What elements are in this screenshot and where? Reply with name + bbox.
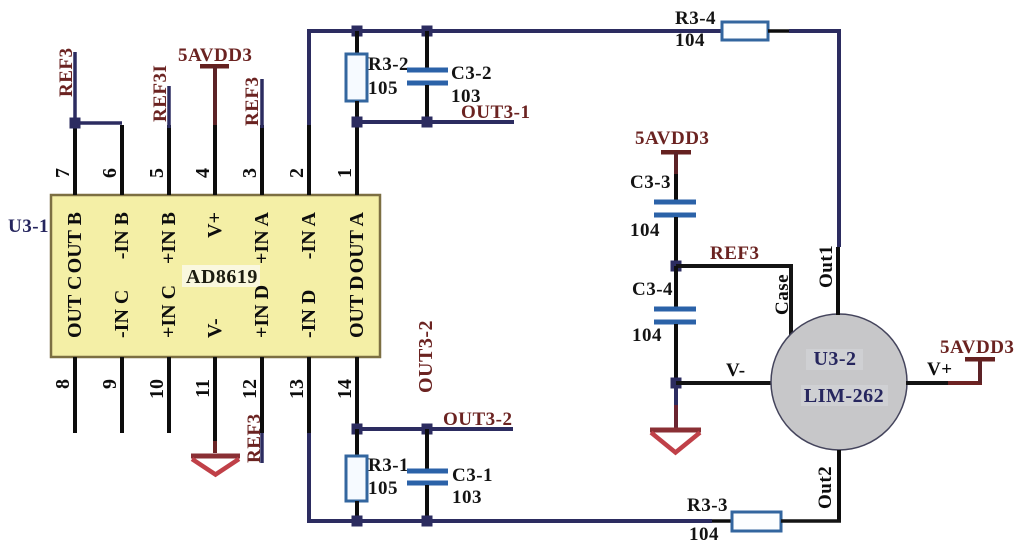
svg-text:105: 105	[368, 478, 398, 499]
ground symbol middle	[650, 428, 701, 433]
svg-text:C3-3: C3-3	[630, 172, 671, 193]
svg-text:12: 12	[239, 379, 261, 399]
pin 5 stub	[167, 125, 171, 195]
pin 7 stub	[73, 125, 77, 195]
resistor R3-2 top lead	[355, 31, 359, 54]
resistor R3-2 bottom lead	[355, 101, 359, 122]
capacitor C3-1 top plate	[407, 469, 448, 474]
capacitor C3-4 top plate	[654, 307, 696, 312]
IC U3-1 body	[51, 195, 380, 357]
pin V+ wire	[906, 381, 948, 385]
svg-text:AD8619: AD8619	[186, 266, 258, 288]
svg-text:V+: V+	[204, 212, 226, 238]
svg-text:V+: V+	[927, 359, 953, 380]
svg-text:103: 103	[452, 487, 482, 508]
capacitor C3-4 bottom plate	[654, 320, 696, 325]
pin 6 stub	[120, 125, 124, 195]
wire rail corner down to Out1	[789, 31, 839, 247]
svg-text:R3-3: R3-3	[687, 495, 728, 516]
pin 2 stub	[307, 122, 311, 195]
wire on pin 12 for REF3	[260, 433, 264, 463]
svg-text:V-: V-	[204, 318, 226, 338]
resistor R3-4 right lead	[768, 29, 791, 33]
svg-text:11: 11	[192, 379, 214, 398]
junction OUT3-2 rail at pin 14	[352, 424, 363, 435]
resistor R3-1 body	[346, 456, 367, 501]
resistor R3-4 body	[722, 22, 768, 40]
wire pin 3 up	[260, 79, 264, 128]
svg-text:OUT3-2: OUT3-2	[415, 320, 437, 393]
svg-text:C3-1: C3-1	[452, 465, 493, 486]
wire OUT3-2 mini rail	[357, 427, 513, 431]
wire V+ to power symbol	[948, 381, 982, 385]
wire REF3 to Case	[676, 266, 791, 336]
svg-text:C3-4: C3-4	[632, 279, 673, 300]
junction bottom rail at C3-1	[422, 516, 433, 527]
capacitor C3-4 top lead	[674, 266, 678, 308]
capacitor C3-1 bottom plate	[407, 481, 448, 486]
junction pin7/pin6	[70, 118, 81, 129]
resistor R3-2 body	[346, 54, 367, 101]
svg-text:-IN A: -IN A	[298, 211, 320, 259]
svg-text:-IN D: -IN D	[298, 290, 320, 338]
svg-text:REF3: REF3	[244, 414, 265, 464]
svg-text:10: 10	[146, 379, 168, 399]
power stem middle	[674, 152, 678, 174]
pin Out2 of U3-2	[837, 450, 841, 521]
svg-text:U3-2: U3-2	[813, 348, 856, 370]
capacitor C3-2 bottom lead	[425, 85, 429, 122]
svg-text:OUT B: OUT B	[64, 212, 86, 273]
svg-text:LIM-262: LIM-262	[804, 385, 884, 407]
power stem right	[978, 359, 982, 383]
svg-text:13: 13	[286, 379, 308, 399]
svg-text:8: 8	[52, 379, 74, 389]
svg-text:6: 6	[99, 168, 121, 178]
wire pin 2 up and top rail	[309, 31, 722, 125]
pin 4 stub	[213, 125, 217, 195]
svg-text:REF3: REF3	[242, 77, 263, 127]
pin 10 stub	[167, 357, 171, 433]
wire lower mini rail OUT3-1	[357, 120, 514, 124]
power bar symbol middle	[661, 150, 691, 155]
svg-text:U3-1: U3-1	[8, 216, 49, 237]
resistor R3-3 body	[732, 512, 781, 531]
svg-text:104: 104	[630, 220, 660, 241]
wire junction to pin 6	[75, 121, 122, 125]
capacitor C3-2 top lead	[425, 31, 429, 69]
junction top rail at R3-2	[352, 26, 363, 37]
svg-text:104: 104	[675, 30, 705, 51]
power stem pin 4	[213, 66, 217, 125]
svg-text:104: 104	[689, 524, 719, 545]
resistor R3-1 bottom lead	[355, 501, 359, 521]
IC U3-1 value AD8619 halo	[182, 265, 260, 287]
svg-text:Out1: Out1	[816, 245, 837, 288]
svg-text:9: 9	[99, 379, 121, 389]
svg-text:R3-2: R3-2	[368, 54, 409, 75]
resistor R3-1 top lead	[355, 429, 359, 456]
junction REF3 node	[671, 261, 682, 272]
capacitor C3-3 bottom plate	[654, 213, 696, 218]
svg-text:+IN B: +IN B	[158, 212, 180, 264]
svg-text:2: 2	[286, 168, 308, 178]
wire pin 5 up	[167, 86, 171, 128]
svg-text:C3-2: C3-2	[451, 63, 492, 84]
power bar symbol right	[965, 357, 995, 362]
svg-text:OUT3-2: OUT3-2	[443, 409, 513, 430]
resistor R3-3 left lead	[712, 519, 732, 523]
power bar symbol pin 4	[200, 64, 229, 69]
svg-text:Case: Case	[772, 274, 793, 315]
pin 14 stub	[355, 357, 359, 429]
svg-text:REF3: REF3	[710, 243, 760, 264]
ground stem middle	[674, 388, 678, 406]
capacitor C3-3 top plate	[654, 200, 696, 205]
capacitor C3-3 bottom lead	[674, 217, 678, 266]
pin 8 stub	[73, 357, 77, 433]
svg-text:104: 104	[632, 325, 662, 346]
junction top rail at C3-2	[422, 26, 433, 37]
U3-2 text halo	[806, 349, 863, 370]
svg-text:-IN B: -IN B	[111, 212, 133, 259]
junction bottom rail at R3-1	[352, 516, 363, 527]
pin 9 stub	[120, 357, 124, 433]
svg-text:3: 3	[239, 168, 261, 178]
svg-text:OUT C: OUT C	[64, 276, 86, 338]
svg-text:+IN D: +IN D	[251, 285, 273, 338]
capacitor C3-4 bottom lead	[674, 324, 678, 383]
svg-text:V-: V-	[726, 360, 746, 381]
junction mini rail at pin 1	[352, 117, 363, 128]
op-amp U3-2 circle body	[771, 314, 907, 450]
ground stem at pin 11	[213, 441, 217, 453]
svg-text:7: 7	[52, 168, 74, 178]
svg-text:-IN C: -IN C	[111, 290, 133, 338]
svg-text:OUT3-1: OUT3-1	[461, 102, 531, 123]
svg-text:+IN A: +IN A	[251, 211, 273, 264]
capacitor C3-2 bottom plate	[407, 81, 448, 86]
capacitor C3-1 top lead	[425, 429, 429, 470]
wire pin 7 up	[73, 52, 77, 124]
ground symbol at pin 11	[191, 454, 240, 459]
pin Out1 of U3-2	[836, 247, 840, 315]
svg-text:+IN C: +IN C	[158, 285, 180, 338]
svg-text:5AVDD3: 5AVDD3	[178, 45, 252, 66]
svg-text:Out2: Out2	[815, 466, 836, 509]
svg-text:OUT A: OUT A	[346, 211, 368, 273]
wire V- to circle	[676, 381, 772, 385]
svg-text:4: 4	[192, 168, 214, 178]
capacitor C3-1 bottom lead	[425, 485, 429, 521]
junction V- node	[671, 378, 682, 389]
svg-text:5AVDD3: 5AVDD3	[940, 337, 1014, 358]
svg-text:5AVDD3: 5AVDD3	[635, 128, 709, 149]
pin 3 stub	[260, 125, 264, 195]
svg-text:R3-4: R3-4	[675, 8, 716, 29]
pin 12 stub	[260, 357, 264, 433]
pin 1 stub	[355, 126, 359, 195]
svg-text:105: 105	[368, 78, 398, 99]
svg-text:1: 1	[334, 168, 356, 178]
junction mini rail at C3-2	[422, 117, 433, 128]
capacitor C3-3 top lead	[674, 174, 678, 201]
wire pin 13 down to bottom rail	[309, 433, 712, 521]
svg-text:R3-1: R3-1	[368, 455, 409, 476]
pin 13 stub	[307, 357, 311, 433]
svg-text:OUT D: OUT D	[346, 276, 368, 338]
capacitor C3-2 top plate	[407, 68, 448, 73]
resistor R3-3 right lead to Out2	[781, 519, 841, 523]
svg-text:5: 5	[146, 168, 168, 178]
svg-text:14: 14	[334, 379, 356, 399]
pin 11 stub	[213, 357, 217, 441]
junction OUT3-2 rail at C3-1	[422, 424, 433, 435]
